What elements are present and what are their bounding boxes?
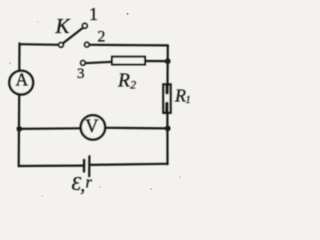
wire voltmeter to right junction xyxy=(105,127,168,130)
wire left vertical (top corner to ammeter) xyxy=(18,43,20,71)
svg-text:1: 1 xyxy=(89,4,98,24)
contact 2 circle xyxy=(85,42,90,47)
battery positive plate (long) xyxy=(88,156,90,176)
svg-text:2: 2 xyxy=(130,80,136,92)
svg-text:2: 2 xyxy=(97,28,105,45)
svg-text:V: V xyxy=(85,117,99,137)
switch K pivot contact circle xyxy=(59,43,64,48)
switch K lever end circle xyxy=(82,23,87,28)
bottom wire right (battery to corner) xyxy=(91,164,168,165)
wire top-left horizontal (corner to switch pivot) xyxy=(20,43,59,46)
wire contact2 to right rail xyxy=(89,44,167,47)
svg-text:R: R xyxy=(117,71,130,92)
junction node at R2/right rail xyxy=(165,58,171,64)
contact 3 circle xyxy=(81,61,86,66)
wire left vertical (ammeter to bottom corner) xyxy=(18,95,21,167)
right rail vertical wire (below R1 to bottom corner) xyxy=(166,113,168,165)
right rail vertical wire (top corner down to R1) xyxy=(166,45,169,85)
svg-text:3: 3 xyxy=(77,66,85,82)
svg-text:r: r xyxy=(86,172,93,191)
svg-text:K: K xyxy=(55,14,71,38)
scan noise specks xyxy=(9,13,181,197)
R1 inner lead marks xyxy=(165,86,169,112)
wire left junction to voltmeter xyxy=(19,127,80,130)
wire R2 to right rail junction xyxy=(145,60,165,62)
wire contact3 to R2 xyxy=(85,62,112,63)
junction node right (voltmeter branch) xyxy=(165,125,171,131)
ammeter U1 circle xyxy=(9,71,33,95)
voltmeter U2 circle xyxy=(81,115,105,139)
battery negative plate (short) xyxy=(83,160,85,172)
junction node left (voltmeter branch) xyxy=(17,126,23,132)
svg-text:R: R xyxy=(174,86,186,106)
bottom wire left (corner to battery) xyxy=(19,165,84,168)
resistor R1 body xyxy=(163,84,170,112)
resistor R2 body xyxy=(112,57,145,65)
switch K lever xyxy=(63,28,83,44)
svg-text:1: 1 xyxy=(186,95,191,106)
svg-text:A: A xyxy=(15,70,28,90)
